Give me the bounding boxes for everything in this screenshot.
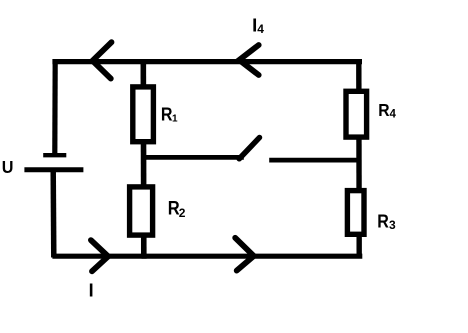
wire right vertical xyxy=(356,59,362,258)
junction: R1 column with top wire xyxy=(141,59,146,64)
current arrow I4 (pointing left) xyxy=(239,45,259,75)
current arrow top-left (pointing left) xyxy=(93,42,112,78)
svg-text:4: 4 xyxy=(390,108,397,120)
current arrow bottom-middle (pointing right) xyxy=(235,238,254,271)
svg-text:R: R xyxy=(377,211,389,232)
svg-text:R: R xyxy=(378,100,389,120)
battery U short plate xyxy=(43,153,66,157)
wire middle column (through R1 and R2) xyxy=(141,60,147,255)
svg-text:4: 4 xyxy=(257,22,264,36)
label R2 xyxy=(168,198,186,220)
wire bottom horizontal xyxy=(52,254,362,259)
resistor R1 xyxy=(133,87,154,142)
svg-text:1: 1 xyxy=(172,113,178,124)
wire left vertical upper xyxy=(52,59,58,154)
resistor R2 xyxy=(130,187,153,235)
label I4 xyxy=(252,15,264,37)
wire switch left segment xyxy=(141,155,244,160)
battery U long plate xyxy=(24,167,83,172)
junction: R2 column with bottom wire xyxy=(142,254,147,259)
label R4 xyxy=(378,100,396,121)
svg-text:2: 2 xyxy=(179,206,186,220)
label R3 xyxy=(377,211,396,233)
wire top horizontal xyxy=(52,59,362,64)
wire left vertical lower xyxy=(50,171,56,258)
switch S1 blade xyxy=(239,138,259,159)
svg-text:I: I xyxy=(89,281,94,301)
current arrow I bottom-left (pointing right) xyxy=(91,240,108,271)
resistor R3 xyxy=(347,191,364,235)
junction: R1/R2 column with switch wire xyxy=(141,155,146,160)
svg-text:U: U xyxy=(2,157,14,177)
wire switch right segment xyxy=(269,158,357,163)
junction: right vertical with switch wire xyxy=(356,158,361,163)
label R1 xyxy=(161,103,178,124)
svg-text:3: 3 xyxy=(389,218,396,232)
resistor R4 xyxy=(346,91,367,137)
